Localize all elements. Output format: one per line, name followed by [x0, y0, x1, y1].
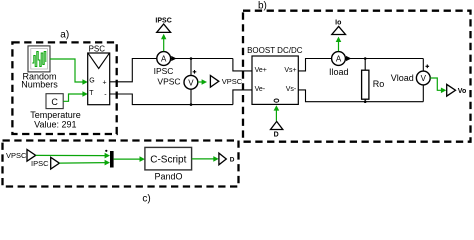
wire C-Script to D goto [192, 156, 219, 162]
goto tag IPSC (up) [155, 18, 171, 52]
svg-text:D: D [274, 132, 279, 139]
svg-text:Value: 291: Value: 291 [34, 119, 76, 129]
ammeter IPSC [157, 52, 171, 66]
wire VPSC tag to mux [36, 153, 110, 159]
dashed subsystem box a) [12, 29, 116, 134]
svg-text:PandO: PandO [154, 171, 182, 181]
svg-text:C-Script: C-Script [150, 154, 186, 165]
svg-text:IPSC: IPSC [154, 66, 174, 76]
wire bottom rail into Ve- [233, 90, 252, 105]
resistor Ro [362, 59, 385, 102]
svg-text:IPSC: IPSC [31, 159, 49, 168]
svg-text:Io: Io [335, 20, 341, 27]
svg-text:Iload: Iload [329, 67, 349, 77]
goto tag Vo (right) [447, 84, 467, 96]
svg-text:Vs-: Vs- [286, 86, 297, 93]
ammeter Iload [329, 52, 349, 77]
wire constant C to T input [63, 91, 88, 101]
dashed subsystem box b) [243, 1, 471, 142]
svg-text:BOOST DC/DC: BOOST DC/DC [247, 46, 303, 55]
wire voltmeter Vload branch [422, 59, 424, 102]
boost converter block [247, 46, 303, 105]
wire top rail into Ve+ [233, 59, 252, 71]
wire Vs+ to load top rail [298, 59, 331, 71]
svg-text:+: + [103, 79, 107, 86]
C-Script block PandO [145, 147, 192, 181]
wire PSC - output to bottom rail [110, 94, 233, 105]
goto tag D (right) in c [219, 153, 235, 165]
wire random numbers to G input [50, 59, 88, 85]
node top rail voltmeter junction [190, 57, 193, 60]
svg-text:A: A [336, 55, 342, 64]
from tag IPSC (right) in c [31, 157, 59, 169]
svg-text:C: C [51, 97, 58, 107]
svg-text:Vload: Vload [391, 73, 414, 83]
wire IPSC tag to mux [59, 160, 110, 166]
wire voltmeter to VPSC goto [198, 79, 207, 84]
goto tag VPSC (right) [210, 76, 242, 88]
svg-text:V: V [421, 74, 427, 83]
wire Vs- to load bottom rail [298, 90, 423, 102]
node Ro bottom junction [364, 100, 367, 103]
random numbers source block [21, 46, 58, 89]
svg-text:VPSC: VPSC [6, 151, 27, 160]
svg-text:a): a) [60, 29, 69, 40]
wire PSC + output to top rail [110, 59, 157, 82]
label IPSC VPSC measurement names [154, 66, 181, 86]
svg-text:VPSC: VPSC [222, 77, 243, 86]
svg-text:Ve+: Ve+ [255, 67, 267, 74]
svg-text:PSC: PSC [89, 45, 106, 54]
wire voltmeter branch [190, 59, 192, 105]
wire mux to C-Script [114, 156, 145, 162]
svg-text:c): c) [142, 194, 150, 205]
from tag VPSC (right) in c [6, 150, 36, 162]
svg-text:Vs+: Vs+ [284, 67, 296, 74]
dashed subsystem box c) [3, 141, 239, 205]
wire voltmeter Vload to Vo goto [430, 78, 446, 93]
mux block [105, 150, 113, 168]
svg-text:V: V [188, 78, 194, 87]
svg-text:Ve-: Ve- [255, 86, 266, 93]
node Ro top junction [364, 57, 367, 60]
svg-text:b): b) [258, 1, 267, 12]
svg-text:Vo: Vo [458, 88, 466, 95]
svg-text:VPSC: VPSC [157, 76, 180, 86]
ammeter output arrow on top rail [171, 56, 233, 61]
svg-text:Ro: Ro [373, 79, 385, 89]
ammeter Iload output arrow [345, 56, 423, 61]
svg-text:T: T [89, 90, 94, 97]
svg-text:IPSC: IPSC [155, 18, 171, 25]
node bottom rail voltmeter junction [190, 103, 193, 106]
voltmeter Vload [391, 65, 430, 85]
svg-text:G: G [89, 78, 94, 85]
from tag D into boost [271, 105, 283, 138]
constant block C (temperature) [30, 94, 81, 130]
svg-text:Numbers: Numbers [21, 79, 58, 89]
svg-text:A: A [161, 55, 167, 64]
goto tag Io (up) [332, 20, 346, 52]
voltmeter VPSC [184, 70, 198, 89]
svg-text:D: D [230, 157, 235, 164]
PSC PV module block [88, 45, 110, 105]
